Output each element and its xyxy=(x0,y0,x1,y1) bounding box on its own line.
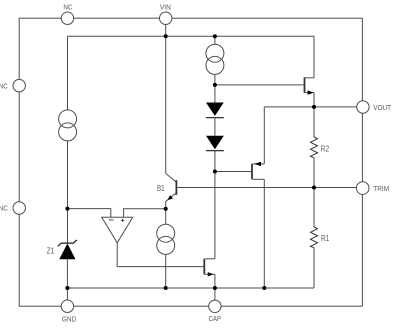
svg-text:VIN: VIN xyxy=(160,2,171,11)
svg-text:B1: B1 xyxy=(157,184,165,193)
wire Q1 gate line xyxy=(215,171,251,173)
diode D2 xyxy=(206,136,224,151)
node VIN rail / current source xyxy=(213,34,217,38)
wire VOUT line xyxy=(264,106,356,108)
pin NC (top) xyxy=(61,3,73,25)
transistor Q2 (top right) xyxy=(305,77,315,107)
node VOUT / Q2 source xyxy=(312,105,316,109)
wire ground rail xyxy=(67,287,314,289)
wire B1 emitter to node xyxy=(165,202,167,225)
node B1 emitter / op-amp plus xyxy=(164,207,168,211)
wire op-amp output to Q3 gate xyxy=(117,243,203,267)
resistor R1 xyxy=(311,227,318,248)
wire top rail VIN xyxy=(68,36,315,78)
wire R2 to R1 through TRIM node xyxy=(313,158,315,227)
svg-text:NC: NC xyxy=(63,3,72,12)
node VIN rail / B1 collector xyxy=(164,34,168,38)
wire mid current source to ground rail xyxy=(165,254,167,288)
node zener top / op-amp minus xyxy=(65,207,69,211)
wire between diodes xyxy=(214,118,216,136)
current source I3 xyxy=(157,224,175,254)
pin NC (left upper) xyxy=(0,79,25,91)
wire current source to diode D1 xyxy=(214,74,216,102)
node diode bottom / Q1 gate xyxy=(213,170,217,174)
current source I2 xyxy=(59,110,77,141)
svg-text:R2: R2 xyxy=(321,145,330,154)
wire R2 top xyxy=(313,107,315,137)
transistor B1 (NPN) xyxy=(166,173,177,201)
wire B1 base to TRIM xyxy=(177,187,356,189)
wire left column mid xyxy=(67,141,69,243)
svg-text:Z1: Z1 xyxy=(47,247,55,256)
svg-text:TRIM: TRIM xyxy=(373,184,389,193)
node ground rail / current source xyxy=(164,286,168,290)
wire diode D2 to Q3 drain xyxy=(214,151,216,259)
node ground rail / zener xyxy=(65,286,69,290)
wire op-amp minus input xyxy=(67,209,110,218)
current source I1 xyxy=(206,44,224,74)
diode D1 xyxy=(206,103,224,118)
wire CAP drop xyxy=(214,288,216,300)
svg-text:VOUT: VOUT xyxy=(373,103,391,112)
wire center column top xyxy=(214,36,216,44)
pin VIN xyxy=(160,2,172,24)
package border xyxy=(19,18,362,306)
wire R1 bottom xyxy=(313,248,315,288)
svg-text:R1: R1 xyxy=(321,234,330,243)
wire left column upper xyxy=(67,36,69,110)
pin TRIM xyxy=(356,182,389,195)
zener diode Z1 xyxy=(58,240,77,259)
wire left column lower xyxy=(66,259,68,288)
wire GND drop xyxy=(66,288,68,300)
pin VOUT xyxy=(357,101,392,113)
node Q2 gate xyxy=(213,83,217,87)
svg-text:NC: NC xyxy=(0,82,8,91)
wire op-amp plus input xyxy=(124,209,166,218)
transistor Q1 (PNP, right mid) xyxy=(252,107,264,288)
op-amp U1 xyxy=(102,217,133,243)
svg-text:NC: NC xyxy=(0,204,8,213)
svg-text:GND: GND xyxy=(62,314,77,323)
resistor R2 xyxy=(311,137,318,158)
wire Q2 gate line xyxy=(215,84,304,86)
pin NC (left lower) xyxy=(0,202,25,214)
node ground rail / Q3 source / CAP xyxy=(213,286,217,290)
transistor Q3 (bottom) xyxy=(204,259,215,288)
pin CAP xyxy=(209,300,222,323)
wire B1 collector column xyxy=(165,36,167,173)
node TRIM / divider xyxy=(312,186,316,190)
wire VIN pin drop xyxy=(165,24,167,36)
svg-text:CAP: CAP xyxy=(209,314,222,323)
pin GND xyxy=(61,300,76,323)
node ground rail / Q1 drain xyxy=(262,286,266,290)
